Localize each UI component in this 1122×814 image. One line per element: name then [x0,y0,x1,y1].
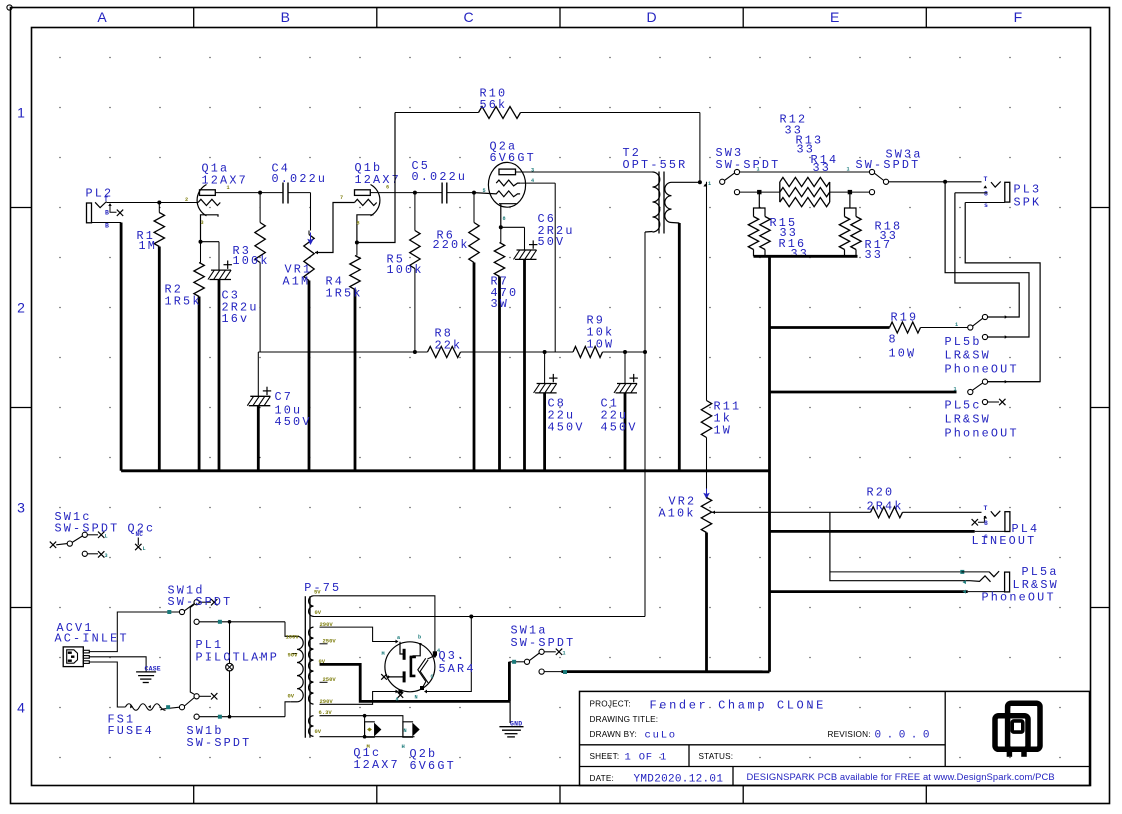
svg-text:0.022u: 0.022u [272,172,328,186]
tap P-75 90V no-connect [292,653,298,655]
node Q2a cathode junction [499,225,503,229]
lamp PL1 PILOTLAMP [229,622,231,664]
svg-text:0V: 0V [315,728,322,735]
svg-text:1R5k: 1R5k [326,287,363,301]
wire P-75 6.3V tap to heater flags [320,716,403,722]
triode Q1a 12AX7 [197,185,206,216]
junction node R1 top [157,201,161,205]
svg-text:33: 33 [865,248,884,262]
svg-text:H: H [402,743,405,750]
connector ACV1 AC-INLET [63,647,83,667]
wire ACV1 pin2 to case ground [89,657,146,672]
wire SW1b throw2 to P-75 primary [199,716,285,718]
svg-text:8: 8 [984,520,988,527]
resistor R20 2R4k [871,507,903,518]
svg-text:DATE:: DATE: [590,774,615,783]
fuse FS1 FUSE4 [125,704,165,711]
svg-text:GND: GND [510,721,522,728]
svg-text:8: 8 [889,333,898,347]
resistor R6 220k [473,193,475,223]
svg-text:PL5a: PL5a [1022,565,1059,579]
svg-text:1: 1 [847,167,850,173]
svg-text:PL2: PL2 [86,187,114,201]
svg-text:4: 4 [17,700,25,716]
svg-text:1: 1 [757,167,760,173]
svg-text:6V6GT: 6V6GT [410,759,456,773]
svg-text:N: N [404,728,407,734]
svg-text:DRAWING TITLE:: DRAWING TITLE: [590,715,659,724]
svg-text:16v: 16v [222,312,250,326]
wire ACV1 pin3 to fuse [89,662,125,707]
connector PL2 input jack [87,203,92,223]
switch SW3 SW-SPDT [720,179,725,184]
wire P-75 0V heater return [320,736,415,738]
capacitor C3 2R2u 16v [218,242,220,270]
svg-text:2R4k: 2R4k [867,500,904,514]
wire P-75 290V bottom to Q3 [320,692,397,705]
resistor R3 100k [259,193,261,223]
svg-text:L: L [143,546,146,552]
wire SW1d throw1 link [190,604,194,694]
svg-text:12AX7: 12AX7 [355,173,401,187]
svg-text:100k: 100k [233,254,270,268]
junction node C8 [543,350,547,354]
resistor R13 33 [780,188,830,197]
svg-text:P-75: P-75 [304,581,341,595]
svg-text:DESIGNSPARK PCB available for: DESIGNSPARK PCB available for FREE at ww… [747,771,1055,782]
svg-text:D: D [647,9,657,25]
wire B+ rail [258,351,427,353]
title block frame [580,691,1090,785]
resistor R7 470 3W [500,227,502,242]
svg-text:1M: 1M [139,239,158,253]
svg-text:R20: R20 [867,486,895,500]
svg-text:5V: 5V [314,589,321,596]
svg-text:450V: 450V [275,415,312,429]
wire R15-R18 bottom bus [754,255,858,258]
svg-text:PhoneOUT: PhoneOUT [982,591,1056,605]
svg-text:8: 8 [984,191,988,198]
svg-text:OPT-55R: OPT-55R [623,158,688,172]
svg-text:3W: 3W [491,297,510,311]
switch SW1b SW-SPDT [179,705,184,710]
resistor R15 33 [758,192,760,208]
svg-text:5AR4: 5AR4 [439,662,476,676]
svg-text:a: a [396,697,399,703]
origin marker [7,5,12,10]
capacitor C7 10u 450V [257,352,259,396]
border column dividers bottom [193,786,195,804]
svg-text:SW-SPDT: SW-SPDT [168,595,233,609]
svg-text:A10k: A10k [659,507,696,521]
svg-text:A1M: A1M [283,275,311,289]
wire R network to SW3a throw2 [830,191,870,193]
wire right ground spine [768,256,771,672]
junction node C1 [623,350,627,354]
resistor R10 56k feedback [395,112,479,114]
heater flag Q1c [365,722,375,737]
resistor R9 10k 10W [573,347,603,358]
svg-text:YMD2020.12.01: YMD2020.12.01 [634,774,724,786]
svg-text:PL5b: PL5b [945,335,982,349]
wire B+ vertical T2 primary [644,232,646,617]
switch SW3a SW-SPDT [869,169,874,174]
svg-text:SPK: SPK [1014,196,1042,210]
border row dividers left [11,207,32,209]
svg-text:5: 5 [483,188,486,194]
svg-text:3: 3 [17,500,25,516]
junction node NFB [698,180,702,184]
junction node R18 top [848,190,852,194]
svg-text:50V: 50V [538,235,566,249]
resistor R4 1R5k [356,243,358,256]
wire ground to PL5a sleeve [770,590,968,593]
winding P-75 5V [309,596,314,617]
svg-text:1 OF 1: 1 OF 1 [625,752,668,764]
svg-text:SW-SPDT: SW-SPDT [55,522,120,536]
transformer T2 OPT-55R [653,172,660,232]
title block text labels [590,700,871,784]
svg-text:SW-SPDT: SW-SPDT [511,636,576,650]
svg-text:33: 33 [813,161,832,175]
capacitor C5 0.022u [415,192,442,194]
svg-text:10W: 10W [889,347,917,361]
wire SW3 throw2 to R network [740,191,780,193]
resistor R5 100k [414,193,416,231]
node Q1a cathode junction [199,240,203,244]
resistor R8 22k [428,347,461,358]
svg-text:SHEET:: SHEET: [590,752,620,761]
wire PL2 sleeve to ground bus [120,223,123,471]
resistor R11 1k 1W [706,182,708,401]
svg-text:0V: 0V [288,693,295,700]
svg-text:B: B [281,9,290,25]
svg-text:33: 33 [791,247,810,261]
svg-text:F: F [1014,9,1023,25]
junction node B+ takeoff [469,615,473,619]
svg-text:1: 1 [954,387,957,393]
svg-text:REVISION:: REVISION: [828,730,871,739]
svg-text:450V: 450V [548,421,585,435]
wire ACV1 pin1 to SW1d [89,612,179,652]
capacitor C1 22u 450V [624,352,626,384]
wire ground to PL4 sleeve [770,530,975,533]
svg-text:T: T [984,176,988,183]
svg-text:8: 8 [357,221,360,227]
wire SW3a common to PL3 [889,181,982,183]
svg-text:a: a [397,635,400,641]
rectifier tube Q3 5AR4 [385,642,435,692]
svg-text:56k: 56k [480,98,508,112]
svg-text:PL5c: PL5c [945,399,982,413]
svg-text:B: B [105,210,109,217]
wire P-75 HV center tap to ground [320,664,510,701]
resistor R18 33 [849,192,851,208]
svg-text:SW-SPDT: SW-SPDT [716,158,781,172]
junction node R15 top [757,190,761,194]
ground CASE [136,671,156,673]
svg-text:CASE: CASE [145,666,161,673]
resistor R2 1R5k [200,242,202,263]
resistor R1 1M [158,203,160,213]
junction node B+ vertical [643,350,647,354]
triode Q1b 12AX7 [371,185,380,216]
svg-text:0.0.0: 0.0.0 [875,730,936,742]
svg-text:90V: 90V [288,652,299,659]
svg-text:NC: NC [136,531,144,538]
svg-text:DRAWN BY:: DRAWN BY: [590,730,637,739]
svg-text:PhoneOUT: PhoneOUT [945,363,1019,377]
resistor R16 33 [760,217,770,250]
heater flag Q2b [403,722,413,737]
svg-text:2: 2 [17,300,25,316]
svg-text:1: 1 [563,651,566,657]
svg-text:1R5k: 1R5k [165,295,202,309]
border row dividers right [1091,207,1110,209]
tap P-75 250V lower no-connect [320,681,328,683]
resistor R12 33 [779,182,781,202]
svg-text:SW-SPDT: SW-SPDT [187,736,252,750]
svg-text:b: b [418,635,421,641]
svg-text:PROJECT:: PROJECT: [590,700,631,709]
svg-text:1W: 1W [714,424,733,438]
wire P-75 B+ tap [320,616,646,618]
border column dividers top [193,8,195,28]
svg-text:C: C [431,674,434,680]
svg-text:LINEOUT: LINEOUT [972,534,1037,548]
svg-text:T: T [984,505,988,512]
winding P-75 HV [309,627,314,704]
tap P-75 250V upper no-connect [320,643,328,645]
resistor R17 33 [851,217,861,250]
wire T2 secondary bottom to ground [678,223,681,471]
svg-text:12AX7: 12AX7 [202,174,248,188]
pentode Q2a 6V6GT [488,162,525,207]
wire SW3 throw1 to SW3a [740,171,870,173]
svg-text:PhoneOUT: PhoneOUT [945,427,1019,441]
wire PL3 tip down [945,182,1029,337]
junction node R5 bottom [413,350,417,354]
junction node Q1a plate [258,191,262,195]
wire SW1a mute line [561,670,769,673]
logo DesignSpark [995,703,1040,757]
wire P-75 5V tap to Q3 [320,596,435,654]
svg-text:0.022u: 0.022u [412,170,468,184]
wire ground to R19 [770,326,890,329]
svg-text:0V: 0V [315,609,322,616]
wire SW1a common to ground [508,662,511,702]
switch SW1c SW-SPDT [50,542,56,548]
resistor R19 8 10W [890,322,921,333]
potentiometer VR1 A1M [310,193,312,231]
svg-text:M: M [382,651,385,657]
svg-text:8: 8 [503,216,506,222]
svg-text:STATUS:: STATUS: [699,752,734,761]
svg-text:C7: C7 [275,390,294,404]
svg-text:1: 1 [708,181,711,187]
node Q1b cathode junction [355,241,359,245]
wire PL3 ring down [955,193,1019,317]
svg-text:6.3V: 6.3V [319,709,333,716]
capacitor C6 2R2u 50V [524,227,526,250]
wire ground bus [121,469,769,472]
svg-text:PILOTLAMP: PILOTLAMP [196,651,280,665]
wire VR2 wiper to PL5a [830,512,970,580]
svg-text:7: 7 [340,195,343,201]
capacitor C8 22u 450V [544,352,546,384]
switch SW1a SW-SPDT [509,661,524,663]
svg-text:10W: 10W [587,338,615,352]
svg-text:LR&SW: LR&SW [945,413,991,427]
svg-text:B: B [105,223,109,230]
wire SW1d throw2 to P-75 primary [199,621,285,623]
junction node R6 top [472,191,476,195]
svg-text:E: E [830,9,839,25]
winding P-75 6.3V [309,716,314,737]
wire ground to PL5c [770,391,957,394]
resistor R14 33 [780,198,830,207]
svg-text:12AX7: 12AX7 [353,758,399,772]
svg-text:Q3.: Q3. [439,649,467,663]
svg-text:6V6GT: 6V6GT [490,151,536,165]
svg-text:N: N [415,695,418,701]
svg-text:cuLo: cuLo [645,730,677,742]
svg-text:1: 1 [17,105,25,121]
svg-text:2: 2 [185,197,188,203]
potentiometer VR2 A10k [704,489,708,498]
ground GND [509,701,511,723]
svg-text:s: s [984,202,988,209]
svg-text:3: 3 [531,168,534,174]
svg-text:LR&SW: LR&SW [945,349,991,363]
svg-text:22k: 22k [435,339,463,353]
svg-text:3: 3 [105,553,108,559]
switch SW1d SW-SPDT [179,609,184,614]
svg-text:1: 1 [955,322,958,328]
svg-text:A: A [97,9,107,25]
svg-text:PL3: PL3 [1014,183,1042,197]
svg-text:Fender Champ CLONE: Fender Champ CLONE [650,699,826,713]
svg-text:220k: 220k [433,238,470,252]
wire R10 to node [699,113,701,183]
wire PL3 sleeve down [965,203,1040,382]
connector PL5a LR&SW PhoneOUT jack [960,570,964,574]
svg-text:100k: 100k [387,263,424,277]
svg-text:C: C [463,9,473,25]
svg-text:FUSE4: FUSE4 [108,724,154,738]
capacitor C4 0.022u [260,192,283,194]
svg-text:450V: 450V [601,421,638,435]
svg-text:4: 4 [531,178,534,184]
svg-text:SW-SPDT: SW-SPDT [856,158,921,172]
junction node PL3 tip [943,180,947,184]
wire P-75 290V top to Q3 [320,627,397,641]
junction node C5 left [413,191,417,195]
svg-text:R19: R19 [891,311,919,325]
svg-text:100V: 100V [286,634,300,641]
svg-text:3: 3 [201,220,204,226]
